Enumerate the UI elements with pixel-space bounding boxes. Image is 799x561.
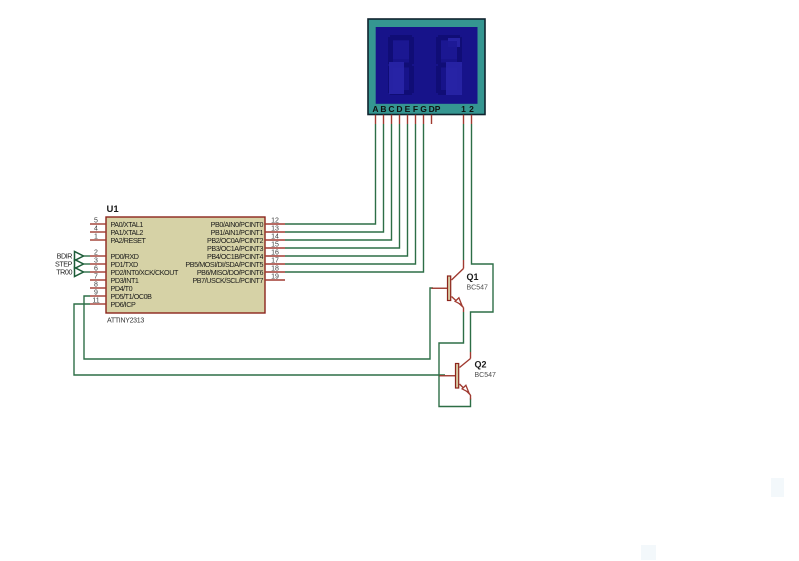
svg-text:3: 3 — [94, 258, 98, 265]
svg-text:DP: DP — [429, 104, 441, 114]
svg-text:G: G — [420, 104, 427, 114]
svg-text:5: 5 — [94, 218, 98, 225]
wire PD6 to Q2 base — [74, 304, 445, 375]
svg-text:15: 15 — [271, 242, 279, 249]
svg-text:13: 13 — [271, 226, 279, 233]
svg-text:E: E — [405, 104, 411, 114]
wire PB2 to display segment C — [285, 124, 392, 240]
wire PB3 to display segment D — [285, 124, 400, 248]
svg-text:6: 6 — [94, 266, 98, 273]
U1 left pin 8 PD4/T0 — [90, 282, 133, 293]
wire display pin 2 to Q2 collector (jog around Q1) — [471, 124, 494, 352]
svg-text:14: 14 — [271, 234, 279, 241]
input port STEP — [55, 260, 90, 269]
U1 left pin 7 PD3/INT1 — [90, 274, 139, 285]
wire PB5 to display segment F — [285, 124, 416, 264]
U1 left pin 5 PA0/XTAL1 — [90, 218, 143, 229]
svg-text:A: A — [372, 104, 378, 114]
svg-text:PD6/ICP: PD6/ICP — [111, 300, 136, 309]
svg-text:8: 8 — [94, 282, 98, 289]
U1 left pin 11 PD6/ICP — [90, 298, 136, 309]
svg-text:TR00: TR00 — [56, 268, 72, 277]
U1 left pin 9 PD5/T1/OC0B — [90, 290, 152, 301]
U1 left pin 2 PD0/RXD — [90, 250, 139, 261]
svg-text:11: 11 — [92, 298, 99, 305]
svg-text:C: C — [388, 104, 394, 114]
svg-text:1: 1 — [461, 104, 466, 114]
svg-text:7: 7 — [94, 274, 98, 281]
svg-text:BC547: BC547 — [467, 285, 489, 292]
svg-text:B: B — [380, 104, 386, 114]
display pins A-G, DP, 1, 2 (red stubs) — [376, 115, 472, 124]
input port BDIR — [57, 252, 90, 261]
svg-text:PA2/RESET: PA2/RESET — [111, 236, 147, 245]
svg-text:12: 12 — [271, 218, 279, 225]
svg-text:17: 17 — [271, 258, 279, 265]
display digit 2 segments — [436, 35, 462, 95]
svg-text:16: 16 — [271, 250, 279, 257]
wire PB6 to display segment G — [285, 124, 424, 272]
U1 right pin 18 PB6/MISO/DO/PCINT6 — [197, 266, 285, 277]
transistor Q2 BC547 — [440, 352, 471, 400]
svg-text:BC547: BC547 — [475, 372, 497, 379]
wire PD5 to Q1 base — [84, 288, 433, 359]
display pin-name labels ABCDEFG DP 1 2 — [372, 104, 474, 114]
7-segment display DS1 body — [368, 19, 485, 115]
svg-text:U1: U1 — [107, 204, 120, 215]
wire Q1 emitter to Q2 emitter — [439, 312, 471, 407]
transistor Q1 BC547 — [432, 260, 464, 312]
wire display pin 1 to Q1 collector — [463, 124, 465, 260]
wire PB0 to display segment A — [285, 124, 376, 224]
U1 right pin 16 PB4/OC1B/PCINT4 — [207, 250, 285, 261]
svg-text:Q2: Q2 — [475, 360, 487, 370]
U1 left pin 3 PD1/TXD — [90, 258, 138, 269]
U1 right pin 17 PB5/MOSI/DI/SDA/PCINT5 — [185, 258, 285, 269]
svg-text:Q1: Q1 — [467, 272, 479, 282]
svg-text:ATTINY2313: ATTINY2313 — [107, 318, 144, 325]
op U1 body ATTINY2313 — [106, 217, 265, 313]
U1 right pin 12 PB0/AIN0/PCINT0 — [211, 218, 285, 229]
svg-text:PB7/USCK/SCL/PCINT7: PB7/USCK/SCL/PCINT7 — [192, 276, 263, 285]
U1 left pin 1 PA2/RESET — [90, 234, 147, 245]
U1 left pin 4 PA1/XTAL2 — [90, 226, 143, 237]
svg-text:19: 19 — [271, 274, 279, 281]
display faint loop interiors — [393, 41, 457, 59]
svg-text:1: 1 — [94, 234, 98, 241]
svg-text:18: 18 — [271, 266, 279, 273]
U1 right pin 14 PB2/OC0A/PCINT2 — [207, 234, 285, 245]
U1 right pin 13 PB1/AIN1/PCINT1 — [211, 226, 285, 237]
svg-text:2: 2 — [94, 250, 98, 257]
svg-text:D: D — [396, 104, 402, 114]
svg-text:F: F — [413, 104, 418, 114]
svg-text:2: 2 — [469, 104, 474, 114]
U1 right pin 15 PB3/OC1A/PCINT3 — [207, 242, 285, 253]
svg-text:9: 9 — [94, 290, 98, 297]
display faint bright patches — [389, 38, 462, 95]
wire PB1 to display segment B — [285, 124, 384, 232]
wire PB4 to display segment E — [285, 124, 408, 256]
U1 left pin 6 PD2/INT0/XCK/CKOUT — [90, 266, 179, 277]
svg-text:4: 4 — [94, 226, 98, 233]
input port TR00 — [56, 268, 90, 277]
display digit 1 segments — [388, 35, 414, 95]
U1 right pin 19 PB7/USCK/SCL/PCINT7 — [192, 274, 285, 285]
